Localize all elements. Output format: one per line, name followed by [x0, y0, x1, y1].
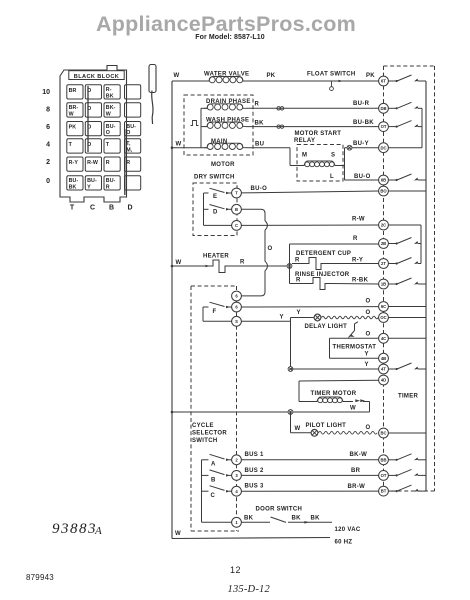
- svg-text:R: R: [106, 160, 110, 166]
- svg-text:OT: OT: [381, 124, 387, 129]
- svg-text:4B: 4B: [381, 356, 386, 361]
- svg-text:T: T: [70, 205, 75, 212]
- svg-text:O: O: [366, 299, 371, 305]
- svg-text:T,: T,: [126, 141, 131, 147]
- svg-text:BUS 1: BUS 1: [245, 452, 265, 458]
- svg-text:BK: BK: [69, 184, 77, 190]
- svg-text:MOTOR START: MOTOR START: [295, 131, 342, 137]
- svg-text:BU-: BU-: [106, 124, 116, 130]
- svg-text:WASH PHASE: WASH PHASE: [206, 118, 249, 124]
- svg-text:BK: BK: [311, 516, 321, 522]
- svg-text:BR-W: BR-W: [348, 484, 366, 490]
- svg-text:B: B: [235, 207, 238, 212]
- svg-text:O: O: [366, 425, 371, 431]
- svg-text:DC: DC: [380, 145, 386, 150]
- svg-text:CYCLE: CYCLE: [192, 423, 214, 429]
- svg-text:0: 0: [46, 178, 50, 185]
- svg-text:BU-BK: BU-BK: [353, 120, 374, 126]
- svg-text:S: S: [331, 153, 335, 159]
- svg-text:R-W: R-W: [352, 217, 365, 223]
- svg-text:DB: DB: [380, 106, 386, 111]
- svg-text:12: 12: [230, 565, 241, 575]
- svg-text:A: A: [94, 525, 102, 537]
- svg-text:2C: 2C: [381, 223, 386, 228]
- svg-text:W: W: [69, 111, 74, 117]
- svg-text:E: E: [213, 194, 217, 200]
- svg-text:BU-: BU-: [106, 178, 116, 184]
- svg-text:R-Y: R-Y: [352, 258, 363, 264]
- svg-text:PK: PK: [366, 73, 375, 79]
- svg-text:TIMER MOTOR: TIMER MOTOR: [311, 391, 357, 397]
- svg-text:RINSE INJECTOR: RINSE INJECTOR: [295, 272, 350, 278]
- svg-text:PK: PK: [267, 73, 276, 79]
- svg-text:W: W: [176, 142, 182, 148]
- svg-text:OT: OT: [381, 473, 387, 478]
- svg-text:Y: Y: [87, 184, 91, 190]
- svg-text:BUS 3: BUS 3: [245, 484, 265, 490]
- svg-text:Y: Y: [280, 315, 284, 321]
- svg-text:R: R: [126, 160, 130, 166]
- svg-text:BC: BC: [380, 431, 386, 436]
- svg-text:R: R: [295, 258, 300, 264]
- svg-text:C: C: [211, 493, 216, 499]
- svg-text:O: O: [366, 310, 371, 316]
- svg-text:FLOAT SWITCH: FLOAT SWITCH: [307, 72, 355, 78]
- svg-text:BU-: BU-: [126, 124, 136, 130]
- svg-text:879943: 879943: [26, 573, 54, 582]
- svg-text:W: W: [175, 531, 181, 537]
- svg-text:D: D: [213, 210, 218, 216]
- svg-text:4C: 4C: [381, 336, 386, 341]
- svg-text:8: 8: [46, 107, 50, 114]
- svg-text:R-W: R-W: [87, 160, 98, 166]
- svg-text:6B: 6B: [381, 178, 386, 183]
- svg-text:TIMER: TIMER: [398, 394, 419, 400]
- svg-text:120 VAC: 120 VAC: [335, 527, 361, 533]
- svg-text:BU-R: BU-R: [353, 101, 370, 107]
- svg-text:BU-O: BU-O: [354, 174, 371, 180]
- svg-text:R-Y: R-Y: [69, 160, 79, 166]
- svg-text:R: R: [255, 102, 260, 108]
- svg-text:F: F: [213, 309, 217, 315]
- svg-text:BK: BK: [106, 93, 114, 99]
- svg-text:R: R: [353, 236, 358, 242]
- svg-text:O: O: [366, 332, 371, 338]
- svg-text:6C: 6C: [381, 304, 386, 309]
- svg-text:BR-: BR-: [69, 105, 79, 111]
- svg-text:10: 10: [42, 89, 50, 96]
- svg-text:Y: Y: [297, 310, 301, 316]
- svg-text:RELAY: RELAY: [294, 138, 315, 144]
- svg-text:AppliancePartsPros.com: AppliancePartsPros.com: [96, 12, 356, 36]
- svg-text:R-: R-: [106, 87, 112, 93]
- svg-text:O: O: [126, 130, 130, 136]
- svg-text:PK: PK: [69, 125, 77, 131]
- svg-text:W: W: [176, 260, 182, 266]
- svg-text:1B: 1B: [381, 282, 386, 287]
- svg-text:MOTOR: MOTOR: [211, 162, 235, 168]
- svg-text:R: R: [106, 184, 110, 190]
- svg-text:M: M: [302, 153, 307, 159]
- svg-text:OC: OC: [380, 315, 386, 320]
- svg-text:BT: BT: [381, 489, 387, 494]
- svg-text:DOOR SWITCH: DOOR SWITCH: [256, 507, 303, 513]
- svg-text:HEATER: HEATER: [203, 254, 229, 260]
- svg-text:O: O: [106, 130, 110, 136]
- svg-text:For Model: 8587-L10: For Model: 8587-L10: [195, 34, 265, 41]
- svg-text:DELAY LIGHT: DELAY LIGHT: [305, 324, 348, 330]
- svg-text:DRY SWITCH: DRY SWITCH: [194, 175, 235, 181]
- svg-text:A: A: [211, 462, 216, 468]
- svg-text:4: 4: [46, 142, 50, 149]
- svg-text:BUS 2: BUS 2: [245, 468, 265, 474]
- svg-text:W: W: [350, 406, 356, 412]
- svg-text:BK-: BK-: [106, 105, 116, 111]
- svg-text:B: B: [211, 478, 216, 484]
- svg-text:T: T: [235, 191, 238, 196]
- svg-text:PILOT LIGHT: PILOT LIGHT: [306, 423, 347, 429]
- svg-text:Y: Y: [365, 362, 369, 368]
- svg-text:THERMOSTAT: THERMOSTAT: [333, 345, 377, 351]
- svg-text:BO: BO: [380, 189, 387, 194]
- svg-text:BU-: BU-: [87, 178, 97, 184]
- svg-text:W: W: [106, 111, 111, 117]
- svg-text:W: W: [295, 426, 301, 432]
- svg-text:BU-: BU-: [69, 178, 79, 184]
- svg-text:60 HZ: 60 HZ: [335, 540, 353, 546]
- svg-text:D: D: [127, 205, 132, 212]
- svg-text:4D: 4D: [381, 378, 386, 383]
- svg-text:R-BK: R-BK: [352, 278, 369, 284]
- svg-text:R: R: [296, 278, 301, 284]
- svg-text:BK: BK: [244, 516, 254, 522]
- svg-text:6T: 6T: [381, 79, 386, 84]
- svg-text:C: C: [90, 205, 95, 212]
- svg-text:Y: Y: [365, 352, 369, 358]
- svg-text:93883: 93883: [52, 521, 97, 537]
- svg-text:S: S: [235, 319, 238, 324]
- svg-text:6: 6: [46, 124, 50, 131]
- svg-text:BU: BU: [255, 142, 264, 148]
- svg-text:2B: 2B: [381, 241, 386, 246]
- svg-text:BLACK BLOCK: BLACK BLOCK: [74, 74, 119, 80]
- svg-text:BR: BR: [69, 88, 77, 94]
- svg-text:BR: BR: [351, 468, 361, 474]
- svg-text:DETERGENT CUP: DETERGENT CUP: [296, 251, 351, 257]
- svg-text:2: 2: [46, 159, 50, 166]
- svg-text:BU-Y: BU-Y: [353, 141, 369, 147]
- svg-text:W: W: [174, 73, 180, 79]
- svg-text:C: C: [235, 223, 238, 228]
- svg-text:L: L: [330, 174, 334, 180]
- svg-text:BK-W: BK-W: [350, 452, 368, 458]
- svg-text:M,: M,: [126, 147, 133, 153]
- svg-text:SELECTOR: SELECTOR: [192, 431, 227, 437]
- svg-text:BU-O: BU-O: [251, 186, 268, 192]
- svg-text:4T: 4T: [381, 367, 386, 372]
- svg-text:BB: BB: [380, 457, 386, 462]
- svg-text:2T: 2T: [381, 261, 386, 266]
- svg-text:BK: BK: [255, 121, 265, 127]
- svg-text:SWITCH: SWITCH: [192, 438, 217, 444]
- svg-text:O: O: [268, 246, 273, 252]
- svg-text:R: R: [240, 260, 245, 266]
- svg-text:135-D-12: 135-D-12: [228, 584, 271, 595]
- svg-text:BK: BK: [292, 516, 302, 522]
- svg-text:B: B: [109, 205, 114, 212]
